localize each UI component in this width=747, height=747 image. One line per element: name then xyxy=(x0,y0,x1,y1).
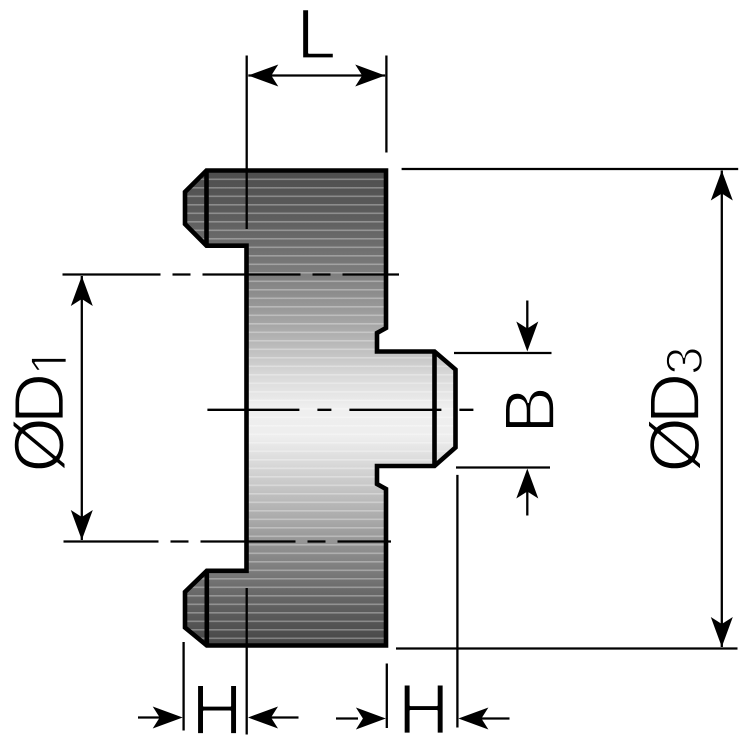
dimension L: extension line right xyxy=(385,56,387,153)
dimension B: lower stem xyxy=(526,490,528,516)
dimension B: upper arrowhead (down) xyxy=(516,322,538,352)
centerline lower bore (y=541.5) xyxy=(64,540,392,542)
dimension H left: label xyxy=(197,685,237,734)
dimension H right: label xyxy=(404,685,444,734)
dimension H left: extension line right xyxy=(246,588,248,735)
dimension B: extension line top xyxy=(454,352,552,354)
dimension L: left arrowhead xyxy=(248,65,278,87)
dimension H left: right arrowhead (left) xyxy=(248,707,278,729)
dimension B: lower arrowhead (up) xyxy=(516,469,538,499)
main axis centerline (y=409.8) xyxy=(207,409,479,411)
dimension OD3: dimension line xyxy=(721,171,723,648)
dimension L: dimension line xyxy=(248,74,385,76)
dimension L: right arrowhead xyxy=(355,65,385,87)
dimension H left: left stem xyxy=(138,716,160,718)
dimension H right: extension line left xyxy=(386,664,388,729)
dimension H left: right stem xyxy=(270,716,299,718)
dimension H right: left arrowhead (right) xyxy=(356,708,386,730)
dimension B: label xyxy=(505,390,554,428)
dimension H right: right stem xyxy=(481,717,510,719)
dimension OD3: bottom arrowhead xyxy=(711,617,733,647)
dimension OD1: top arrowhead xyxy=(71,276,93,306)
edge line bottom flange face xyxy=(205,571,210,646)
dimension OD1: label xyxy=(13,358,67,470)
dimension H right: right arrowhead (left) xyxy=(458,708,488,730)
centerline upper bore (y=274.5) xyxy=(63,273,400,275)
edge line top flange face xyxy=(204,171,209,246)
part outline xyxy=(185,171,456,646)
dimension OD1: bottom arrowhead xyxy=(71,510,93,540)
dimension H left: left arrowhead (right) xyxy=(153,707,183,729)
dimension L: extension line left xyxy=(246,56,248,230)
dimension OD3: top arrowhead xyxy=(711,171,733,201)
dimension B: extension line bottom xyxy=(456,466,550,468)
dimension OD3: extension line top xyxy=(402,168,739,170)
part body (section profile) fill xyxy=(185,171,456,646)
dimension H right: extension line right xyxy=(456,475,458,728)
dimension H right: left stem xyxy=(336,717,358,719)
edge line boss face xyxy=(432,352,437,467)
dimension OD3: extension line bottom xyxy=(396,647,738,649)
dimension B: upper stem xyxy=(526,301,528,331)
dimension L: label xyxy=(302,9,333,58)
dimension H left: extension line left xyxy=(182,642,184,731)
dimension OD1: dimension line xyxy=(81,276,83,540)
dimension OD3: label xyxy=(648,349,702,470)
part body scanline shading xyxy=(185,171,456,646)
